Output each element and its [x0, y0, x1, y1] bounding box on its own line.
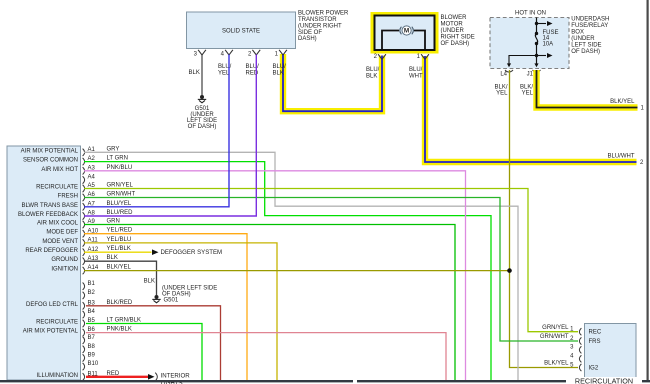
- off-page bracket interior lights: [155, 373, 157, 381]
- pin A5: [83, 185, 85, 192]
- pin A1: [83, 149, 85, 156]
- svg-text:REAR DEFOGGER: REAR DEFOGGER: [25, 248, 78, 254]
- svg-text:3: 3: [194, 51, 198, 57]
- svg-text:INTERIOR: INTERIOR: [161, 372, 191, 379]
- svg-text:BLU/WHT: BLU/WHT: [608, 154, 635, 160]
- pin 1 of recirculation unit: [579, 328, 581, 335]
- wire YEL/RED A10: [84, 234, 247, 381]
- pin 4 of recirculation unit: [579, 355, 581, 362]
- svg-text:YEL: YEL: [218, 70, 230, 76]
- wire PNK/BLU A3: [84, 171, 466, 381]
- wire RED B11 to interior lights: [86, 376, 148, 378]
- pin B6: [83, 329, 85, 336]
- svg-text:3: 3: [570, 345, 574, 351]
- svg-text:PNK/BLK: PNK/BLK: [107, 327, 132, 333]
- svg-text:ILLUMINATION: ILLUMINATION: [36, 373, 78, 379]
- svg-text:BLK/YEL: BLK/YEL: [544, 360, 569, 366]
- pin A3: [83, 167, 85, 174]
- svg-text:L4: L4: [500, 72, 507, 78]
- svg-text:FRESH: FRESH: [58, 193, 78, 199]
- pin A6: [83, 194, 85, 201]
- pin A10: [83, 230, 85, 237]
- pin B2: [83, 292, 85, 299]
- svg-text:LT GRN/BLK: LT GRN/BLK: [107, 317, 141, 323]
- svg-text:REC: REC: [589, 330, 602, 336]
- pin L4: [505, 70, 513, 72]
- svg-text:YEL: YEL: [496, 90, 508, 96]
- fuse box branch arrow lower: [537, 55, 547, 57]
- svg-text:BLK/YEL: BLK/YEL: [107, 265, 132, 271]
- motor pin 1: [421, 54, 425, 59]
- wire LT GRN/BLK B5: [86, 324, 202, 381]
- pin A11: [83, 239, 85, 246]
- wire BLU/YEL A7 to solid-state pin4: [84, 55, 229, 207]
- ground G501 left: [155, 295, 159, 299]
- svg-text:1: 1: [275, 51, 279, 57]
- wire GRN A9: [84, 225, 455, 381]
- svg-text:IGNITION: IGNITION: [51, 267, 78, 273]
- motor pin 2: [378, 54, 382, 59]
- pin A2: [83, 158, 85, 165]
- svg-text:SENSOR COMMON: SENSOR COMMON: [23, 158, 78, 164]
- svg-text:B1: B1: [88, 281, 96, 287]
- svg-text:AIR MIX POTENTAL: AIR MIX POTENTAL: [23, 329, 79, 335]
- arrow to defogger system: [152, 249, 159, 255]
- svg-text:2: 2: [640, 160, 644, 166]
- svg-text:B9: B9: [88, 352, 96, 358]
- wire GRN/WHT A6 to recirculation FRS pin2: [84, 198, 578, 342]
- svg-text:HOT IN ON: HOT IN ON: [515, 10, 546, 16]
- svg-text:B2: B2: [88, 290, 96, 296]
- svg-text:YEL/RED: YEL/RED: [107, 228, 133, 234]
- svg-text:YEL: YEL: [522, 90, 534, 96]
- wire GRN/YEL A5 to recirculation REC pin1: [84, 189, 578, 332]
- svg-text:BLU/: BLU/: [366, 67, 380, 73]
- svg-text:(UNDER RIGHT: (UNDER RIGHT: [298, 23, 342, 29]
- pin 5 of recirculation unit: [579, 364, 581, 371]
- ground G501 under solid state: [200, 95, 204, 99]
- svg-text:BLK: BLK: [144, 279, 155, 285]
- svg-text:BLK: BLK: [107, 255, 118, 261]
- svg-text:DEFOGGER SYSTEM: DEFOGGER SYSTEM: [161, 249, 223, 256]
- svg-text:BLK: BLK: [189, 70, 200, 76]
- op pin 2 of solid state: [252, 50, 256, 55]
- svg-text:BLU/YEL: BLU/YEL: [107, 201, 132, 207]
- svg-text:2: 2: [374, 54, 378, 60]
- op pin 1 of solid state: [279, 50, 283, 55]
- svg-text:OF DASH): OF DASH): [571, 49, 600, 55]
- wire BLU/WHT motor pin1 to connector 2 (highlighted): [425, 56, 637, 162]
- svg-text:RECIRCULATE: RECIRCULATE: [36, 184, 78, 190]
- svg-text:AIR MIX POTENTIAL: AIR MIX POTENTIAL: [21, 148, 79, 154]
- svg-text:GRN: GRN: [107, 218, 120, 224]
- svg-text:BLOWER: BLOWER: [441, 15, 468, 21]
- pin B5: [83, 320, 85, 327]
- pin 3 of recirculation unit: [579, 346, 581, 353]
- svg-text:RECIRCULATE: RECIRCULATE: [36, 319, 78, 325]
- recirculation unit caption: [566, 377, 642, 384]
- blower motor internal wiring: [382, 31, 399, 50]
- pin A7: [83, 203, 85, 210]
- svg-text:BLK: BLK: [273, 70, 284, 76]
- fuse box internal feed wire: [536, 18, 538, 34]
- pin A8: [83, 212, 85, 219]
- pin 2 of recirculation unit: [579, 337, 581, 344]
- svg-text:GROUND: GROUND: [51, 257, 78, 263]
- wire GRY A1: [84, 152, 518, 380]
- svg-text:TRANSISTOR: TRANSISTOR: [298, 17, 337, 23]
- svg-text:LEFT SIDE: LEFT SIDE: [571, 42, 601, 48]
- wire YEL/BLK A12 to defogger system: [84, 251, 152, 253]
- svg-text:OF DASH): OF DASH): [441, 41, 470, 47]
- fuse box branch arrow top: [537, 23, 547, 25]
- svg-text:A4: A4: [88, 175, 96, 181]
- svg-text:BLK/RED: BLK/RED: [107, 300, 133, 306]
- motor symbol M: [400, 27, 402, 35]
- svg-text:GRN/YEL: GRN/YEL: [107, 182, 134, 188]
- svg-text:4: 4: [221, 51, 225, 57]
- svg-text:DASH): DASH): [298, 36, 317, 42]
- svg-text:1: 1: [641, 106, 645, 112]
- wire BLK/YEL A14 ignition to junction: [84, 270, 510, 272]
- wire BLK/YEL fuse J1 to connector 1 (highlighted): [537, 70, 638, 108]
- wire YEL/BLU A11: [84, 243, 277, 381]
- blower motor M1 box (highlighted): [371, 12, 439, 54]
- svg-text:GRY: GRY: [107, 146, 120, 152]
- svg-text:1: 1: [417, 54, 421, 60]
- svg-text:MODE DEF: MODE DEF: [46, 230, 78, 236]
- wire BLU/RED A8 to solid-state pin2: [84, 55, 256, 217]
- svg-text:MODE VENT: MODE VENT: [42, 239, 78, 245]
- svg-text:10A: 10A: [543, 41, 554, 47]
- svg-text:UNDERDASH: UNDERDASH: [571, 16, 609, 22]
- svg-text:BOX: BOX: [571, 29, 584, 35]
- svg-text:OF DASH): OF DASH): [188, 124, 217, 130]
- svg-text:IG2: IG2: [589, 365, 599, 371]
- svg-text:B4: B4: [88, 309, 96, 315]
- fuse F14 symbol: [535, 34, 537, 44]
- svg-text:GRN/WHT: GRN/WHT: [107, 191, 136, 197]
- svg-text:BLU/: BLU/: [273, 64, 287, 70]
- svg-text:4: 4: [570, 354, 574, 360]
- svg-text:G501: G501: [164, 297, 179, 303]
- HVAC control unit connector box: [7, 146, 81, 380]
- arrow to interior lights: [148, 374, 155, 380]
- svg-text:(UNDER: (UNDER: [571, 36, 595, 42]
- svg-text:AIR MIX HOT: AIR MIX HOT: [41, 167, 78, 173]
- svg-text:BLU/RED: BLU/RED: [107, 210, 134, 216]
- pin B11: [83, 373, 85, 380]
- svg-text:B8: B8: [88, 344, 96, 350]
- pin A13: [83, 258, 85, 265]
- pin B10: [83, 363, 85, 370]
- svg-text:RIGHT SIDE: RIGHT SIDE: [441, 34, 475, 40]
- pin A14: [83, 267, 85, 274]
- pin B1: [83, 283, 85, 290]
- bottom component frame line: [0, 380, 353, 382]
- svg-text:PNK/BLU: PNK/BLU: [107, 165, 133, 171]
- pin A9: [83, 221, 85, 228]
- pin B9: [83, 354, 85, 361]
- wire BLK/RED B3: [86, 306, 221, 381]
- svg-text:BLWR TRANS BASE: BLWR TRANS BASE: [22, 203, 78, 209]
- pin B4: [83, 311, 85, 318]
- svg-text:M: M: [404, 28, 409, 35]
- svg-text:GRN/YEL: GRN/YEL: [542, 325, 569, 331]
- svg-text:DEFOG LED CTRL: DEFOG LED CTRL: [26, 302, 79, 308]
- svg-text:BLK: BLK: [366, 73, 377, 79]
- op pin 4 of solid state: [225, 50, 229, 55]
- recirculation control unit box: [585, 324, 637, 378]
- svg-text:MOTOR: MOTOR: [441, 22, 464, 28]
- svg-text:BLOWER FEEDBACK: BLOWER FEEDBACK: [18, 212, 78, 218]
- svg-text:BLU/: BLU/: [246, 64, 260, 70]
- pin B3: [83, 302, 85, 309]
- blower power transistor U1 box (SOLID STATE): [187, 12, 296, 49]
- svg-text:B7: B7: [88, 335, 96, 341]
- pin B8: [83, 346, 85, 353]
- wire PNK/BLK B6: [86, 333, 446, 381]
- svg-text:SOLID STATE: SOLID STATE: [222, 28, 260, 34]
- underdash fuse/relay box (dashed): [490, 18, 569, 69]
- svg-text:SIDE OF: SIDE OF: [298, 30, 322, 36]
- wire BLK solid-state pin3 to ground: [201, 55, 203, 95]
- op pin 3 of solid state: [198, 50, 202, 55]
- svg-text:FRS: FRS: [589, 339, 601, 345]
- wire BLU/BLK solid-state pin1 to motor pin2 (highlighted): [283, 54, 382, 111]
- pin A12: [83, 249, 85, 256]
- page border right: [647, 0, 649, 382]
- svg-text:YEL/BLU: YEL/BLU: [107, 237, 132, 243]
- svg-text:BLU/: BLU/: [409, 67, 423, 73]
- svg-text:WHT: WHT: [409, 73, 423, 79]
- pin B7: [83, 337, 85, 344]
- wire BLK A13 to ground: [84, 261, 157, 295]
- svg-text:(UNDER: (UNDER: [441, 28, 465, 34]
- svg-text:RECIRCULATION: RECIRCULATION: [575, 377, 633, 384]
- wire LT GRN A2: [84, 162, 491, 381]
- svg-text:YEL/BLK: YEL/BLK: [107, 246, 131, 252]
- svg-text:LT GRN: LT GRN: [107, 156, 128, 162]
- pin A4: [83, 176, 85, 183]
- svg-text:GRN/WHT: GRN/WHT: [540, 334, 569, 340]
- svg-text:AIR MIX COOL: AIR MIX COOL: [37, 220, 79, 226]
- svg-text:B10: B10: [88, 361, 99, 367]
- svg-text:2: 2: [248, 51, 252, 57]
- wire BLK/YEL fuse L4 down to junction and IG2: [510, 70, 579, 368]
- svg-text:BLK/YEL: BLK/YEL: [610, 99, 635, 105]
- pin J1: [533, 70, 541, 72]
- svg-text:BLOWER POWER: BLOWER POWER: [298, 11, 349, 17]
- svg-text:FUSE/RELAY: FUSE/RELAY: [571, 23, 608, 29]
- fuse box branch to pin L4: [509, 56, 537, 64]
- svg-text:J1: J1: [527, 72, 534, 78]
- pin J1 arrow: [534, 63, 538, 67]
- junction node BLK/YEL: [507, 268, 512, 273]
